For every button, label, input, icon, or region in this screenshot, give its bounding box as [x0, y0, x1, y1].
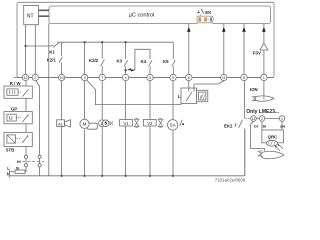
svg-text:R / W: R / W [10, 81, 22, 86]
wire branch loop to K4 [135, 49, 150, 70]
wire terminal 3 to air pressure switch [87, 80, 181, 104]
svg-text:QRC: QRC [268, 134, 278, 139]
wire µC input from terminal 11 [223, 24, 225, 75]
svg-text:K3: K3 [117, 59, 123, 64]
svg-text:4: 4 [125, 76, 127, 80]
svg-text:K2/2: K2/2 [89, 58, 99, 63]
svg-text:Only LME23...: Only LME23... [246, 109, 279, 115]
svg-text:EK: EK [205, 10, 212, 15]
svg-text:3: 3 [84, 76, 86, 80]
svg-text:GP: GP [11, 106, 17, 111]
wire terminal 9 to actuator [172, 81, 174, 176]
safety limit thermostat STB [4, 132, 32, 146]
svg-text:1: 1 [281, 117, 283, 121]
ignition transformer Z [99, 120, 113, 127]
terminal 1 [261, 74, 267, 80]
svg-text:AL: AL [58, 121, 64, 126]
plug contact pair on L line [24, 155, 27, 158]
wire µC neutral return [48, 24, 50, 176]
node rail to ignition branch [101, 41, 103, 43]
svg-text:7101a02e/0609: 7101a02e/0609 [215, 177, 246, 182]
arrow up to µC [187, 27, 191, 32]
wire L-rail main segment [58, 41, 174, 43]
svg-text:10: 10 [60, 76, 64, 80]
wire terminal 10 to alarm [61, 81, 63, 176]
unit border (burner control housing outline) [17, 2, 274, 77]
node N rail SA [172, 175, 174, 177]
svg-text:8: 8 [243, 76, 245, 80]
signal lamp LED (multicolor indicator) [197, 22, 212, 24]
QRC photo sensor [266, 140, 283, 151]
wire terminal 5 to valve V2 [149, 81, 151, 176]
terminal row line [14, 77, 275, 79]
svg-text:SA: SA [170, 123, 176, 128]
burner flame [258, 151, 284, 159]
arrow up to µC [242, 27, 246, 32]
wire rail to terminal 3 [84, 42, 86, 74]
flame signal amplifier FSV [260, 43, 268, 50]
boundary line (dash-dot) [23, 161, 45, 163]
QRC terminal link line [256, 118, 279, 120]
svg-text:EK2: EK2 [224, 124, 233, 129]
wire terminal 3 to fan motor [84, 81, 86, 176]
wire terminal 12 to controller chain [25, 81, 27, 86]
svg-text:9: 9 [172, 76, 174, 80]
node N rail V2 [149, 175, 151, 177]
node rail to V1 branch [125, 41, 127, 43]
wire STB to plug connector [25, 147, 27, 156]
svg-text:5: 5 [149, 76, 151, 80]
svg-text:6: 6 [188, 76, 190, 80]
wire connector to fuse [25, 167, 26, 172]
svg-text:12: 12 [252, 117, 256, 121]
wire NT L lead to terminal 12 [25, 25, 27, 75]
svg-text:K1: K1 [49, 50, 55, 55]
fuel valve V2 [143, 119, 162, 128]
wire flame amplifier line [263, 24, 265, 75]
node N rail AL [61, 175, 63, 177]
QRC terminal 1 [279, 116, 285, 122]
svg-text:bl: bl [263, 124, 267, 129]
QRC terminal 2 [259, 116, 265, 122]
terminal 6 [186, 74, 192, 80]
svg-text:µC control: µC control [129, 12, 155, 18]
wire LP to terminal 11 [194, 81, 224, 88]
arrow up to µC [262, 27, 266, 32]
svg-text:1: 1 [263, 76, 265, 80]
power supply NT [24, 5, 39, 24]
terminal 8 [241, 74, 247, 80]
svg-text:12: 12 [24, 76, 28, 80]
wire NT N lead to terminal 2 [34, 25, 36, 75]
wire µC input from terminal 6 (air pressure signal) [188, 24, 190, 75]
svg-text:M: M [83, 122, 87, 127]
wire br to burner ground [251, 121, 265, 151]
wire µC to terminal 8 [243, 24, 245, 75]
wire terminal 4 to valve V1 [125, 81, 127, 176]
svg-text:2: 2 [261, 117, 263, 121]
svg-text:sw: sw [280, 124, 286, 129]
fuel valve V1 [120, 119, 139, 128]
µC control U1 box [49, 6, 271, 24]
node N rail Z [101, 175, 103, 177]
svg-text:Hi: Hi [17, 160, 21, 164]
svg-text:K5: K5 [163, 59, 169, 64]
terminal 3 [81, 74, 87, 80]
terminal 12 [22, 74, 28, 80]
wire GP to STB [25, 124, 27, 133]
flame detector QRC [262, 130, 284, 143]
terminal 9 [170, 74, 176, 80]
terminal 11 [221, 74, 227, 80]
svg-text:K2/1: K2/1 [47, 58, 57, 63]
neutral rail N [9, 129, 245, 176]
wire bl to QRC [261, 121, 263, 130]
bus NT to µC [39, 10, 50, 16]
terminal 4 [122, 74, 128, 80]
alarm AL [57, 120, 71, 127]
plug contact pair on N column [38, 155, 41, 158]
node junction on L lead [24, 45, 26, 47]
actuator SA [168, 120, 185, 130]
reset button EK [197, 9, 204, 14]
terminal 10 [58, 74, 64, 80]
terminal 7 [99, 74, 105, 80]
arrow into junction [128, 69, 135, 72]
fan motor M [80, 119, 97, 129]
svg-text:7: 7 [101, 76, 103, 80]
svg-text:K4: K4 [141, 59, 147, 64]
arrow up to µC [222, 27, 226, 32]
wire sw to QRC [281, 121, 283, 130]
terminal 2 [32, 74, 38, 80]
svg-text:FSV: FSV [253, 51, 261, 56]
node N rail V1 [125, 175, 127, 177]
svg-text:br: br [254, 124, 258, 129]
terminal 5 [147, 74, 153, 80]
wire L-rail left segment [26, 45, 54, 46]
node N rail M [84, 175, 86, 177]
node V1/V2 branch junction [125, 69, 127, 71]
svg-text:ION: ION [250, 87, 258, 92]
wire terminal 2 to neutral column [36, 81, 40, 176]
wire terminal 7 to ignition [101, 81, 103, 176]
svg-text:STB: STB [6, 148, 15, 153]
pressure sensor cell p [197, 90, 208, 101]
node rail to motor branch [84, 41, 86, 43]
wire R/W to GP [25, 98, 27, 111]
QRC terminal 12 [251, 116, 257, 122]
svg-text:2: 2 [34, 76, 36, 80]
wire terminal 6 to air pressure switch LP [188, 81, 190, 88]
dashed link EK2 line to QRC circuit [246, 118, 251, 120]
svg-text:NT: NT [27, 13, 34, 19]
svg-text:11: 11 [222, 76, 226, 80]
svg-text:V1: V1 [123, 121, 129, 126]
svg-text:V2: V2 [147, 121, 153, 126]
wire terminal 8 through EK2 to N rail [243, 81, 245, 176]
